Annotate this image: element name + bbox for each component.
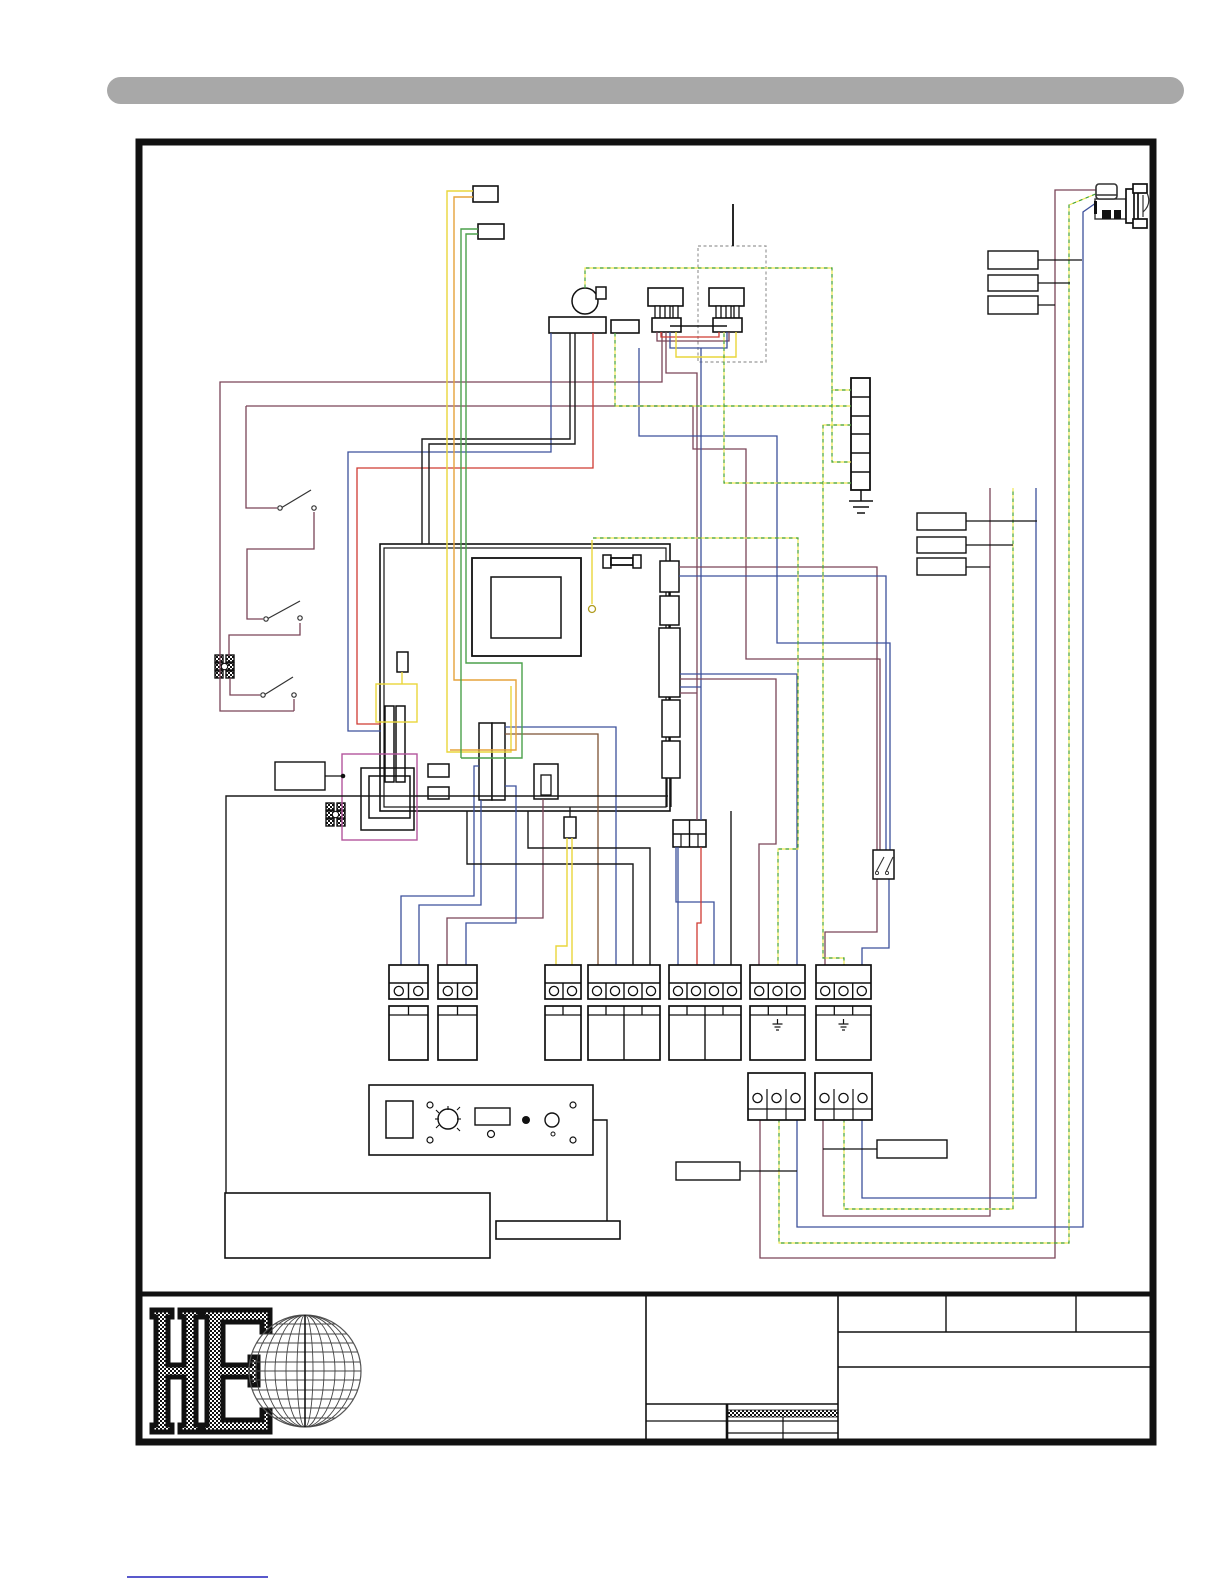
wire blue conn1 to relay switch — [679, 576, 886, 851]
gnd wire ignitor loop — [585, 268, 851, 390]
leader to F2 wire — [740, 1170, 797, 1172]
ignitor circle — [572, 288, 598, 314]
transformer T1 core outer — [361, 768, 414, 830]
vent pipe line — [732, 204, 734, 246]
wire blue header to block A right — [419, 800, 481, 965]
connector J5 tall plug — [659, 628, 680, 697]
switch SW4 — [261, 677, 296, 697]
logo letter H — [152, 1310, 200, 1432]
connector J4 link 1 — [668, 592, 670, 596]
title block divider vertical 1 — [645, 1296, 647, 1440]
leader transformer with dot — [325, 775, 343, 777]
wire blue header to block B — [466, 786, 516, 965]
terminal block TB-F2 — [748, 1073, 805, 1120]
wire blue J8 to block E3 — [676, 847, 714, 965]
wire blue conn3 to J8 — [680, 686, 701, 688]
terminal block TB-G2 — [815, 1073, 872, 1120]
wire yellow PCB test point — [591, 540, 593, 604]
gas valve GV2 leg 1 — [716, 306, 721, 318]
gas valve GV2 coil top — [709, 288, 744, 306]
title block rev table bold divider — [726, 1404, 729, 1440]
relay switch box — [873, 850, 894, 879]
wire blue valve U jumper — [670, 332, 727, 348]
connector 2x2 block J8 — [673, 820, 706, 847]
label box right of G2 — [877, 1140, 947, 1158]
leader mid right 3 — [966, 566, 990, 568]
title block rev line 2 — [727, 1432, 838, 1434]
wire blue block F2 loop to motor — [797, 198, 1103, 1227]
terminal block TB-D — [588, 965, 660, 1060]
leader motor blue — [1038, 259, 1082, 261]
wire green rectB loop — [461, 234, 522, 758]
title block top border — [136, 1292, 1156, 1297]
gas valve GV2 leg 2 — [726, 306, 731, 318]
wire blue conn3 to block F — [680, 674, 797, 965]
wire red burner to PCB left — [357, 333, 593, 724]
relay K1 yellow outline — [376, 684, 417, 722]
title block divider vertical 2 — [837, 1296, 839, 1440]
connector J4 link 2 — [668, 625, 670, 628]
connector J6 small rect a — [428, 764, 449, 777]
terminal block TB-B — [438, 965, 477, 1060]
leader mid right 1 — [966, 520, 1037, 522]
burner bracket wide rect — [549, 317, 606, 333]
leader motor gnd — [1038, 282, 1070, 284]
wire maroon block out to SW4 — [230, 678, 260, 695]
control panel — [369, 1085, 593, 1155]
inducer motor — [1094, 184, 1149, 228]
wire blue block G2 loop up right — [862, 488, 1036, 1198]
gnd wire PCB to block F — [593, 538, 798, 965]
wire maroon SW2 out — [229, 623, 300, 656]
connector J7 link 4 — [668, 737, 670, 741]
wire blue burner to PCB left — [348, 333, 551, 731]
wire red J8 to block E2 — [697, 847, 701, 965]
ground strip divider 1 — [851, 396, 870, 398]
gas valve GV1 coil top — [648, 288, 683, 306]
wire maroon U3 to block B — [447, 799, 543, 965]
ground symbol — [849, 490, 873, 513]
junction connector block 2 — [326, 803, 345, 826]
wire yellow sensor to block C left — [556, 838, 567, 965]
label box mid right 3 — [917, 558, 966, 575]
connector J4 right edge plug 2 — [660, 596, 679, 625]
wire maroon conn1 to relay switch — [679, 567, 877, 851]
sheet border frame — [139, 142, 1153, 1442]
wire blue relay switch to block G — [862, 879, 889, 965]
ignitor boot rect — [596, 287, 606, 299]
valve link wire — [670, 325, 727, 327]
low voltage boundary box — [342, 754, 417, 840]
wire maroon valve U jumper — [657, 332, 729, 341]
title block rev hatched strip — [728, 1410, 838, 1417]
wire black block E4 — [730, 811, 732, 965]
flame sensor rect B — [478, 224, 504, 239]
gas valve GV1 leg 3 — [673, 306, 678, 318]
wire maroon connector J8 stub — [680, 692, 697, 694]
wire maroon switch loop main — [220, 332, 662, 711]
transformer T1 winding bar right — [396, 706, 405, 782]
wire black burner pair a — [422, 333, 570, 544]
title block rev table top — [646, 1403, 838, 1405]
connector J5 link 3 — [668, 697, 670, 700]
wire maroon relay switch to block G — [825, 879, 877, 965]
ground strip divider 4 — [851, 452, 870, 454]
ground wires yellow-green dashed — [585, 193, 1098, 1243]
wire black PCB to block D3 — [467, 811, 633, 965]
footer link underline — [127, 1576, 268, 1578]
wire yellow valve U jumper — [676, 332, 736, 357]
wire yellow rectA loop — [447, 191, 511, 752]
ground terminal strip — [851, 378, 870, 490]
logo globe — [249, 1315, 361, 1427]
terminal block TB-C — [545, 965, 581, 1060]
gas valve GV2 base — [713, 318, 742, 332]
label box motor maroon — [988, 296, 1038, 314]
fuse F1 terminal left — [603, 555, 611, 568]
wire blue J8 to block E1 — [677, 847, 679, 965]
leader mid right 2 — [966, 544, 1013, 546]
leader motor maroon — [1038, 304, 1055, 306]
sensor bracket rect — [611, 320, 639, 333]
notes box large — [225, 1193, 490, 1258]
connector J7 plug 5 — [662, 741, 680, 778]
connector J4 right edge plug 1 — [660, 561, 679, 592]
wire red valve U jumper — [661, 332, 719, 337]
logo letter E — [203, 1310, 270, 1432]
display frame — [472, 558, 581, 656]
terminal block TB-E — [669, 965, 741, 1060]
test point circle — [589, 606, 596, 613]
wire maroon conn3 to block F — [680, 679, 776, 965]
leader to G2 wire — [823, 1148, 877, 1150]
gnd wire strip jumper — [832, 390, 851, 462]
fuse F1 body — [611, 558, 633, 565]
title block h-line right lower — [838, 1366, 1153, 1368]
wire black burner pair b — [429, 333, 575, 544]
ground strip divider 5 — [851, 471, 870, 473]
gnd wire strip to valve GV2 — [724, 332, 851, 483]
control panel line — [593, 1120, 607, 1221]
gnd wire bracket to strip — [615, 333, 851, 406]
label box mid right 2 — [917, 537, 966, 553]
wire yellow relay K1 lead — [401, 672, 403, 684]
connector J7 plug 4 — [662, 700, 680, 737]
ground strip divider 2 — [851, 415, 870, 417]
wire black PCB to block D4 — [528, 811, 650, 965]
wire maroon SW4 return — [293, 699, 295, 711]
wire orange rectA loop — [450, 197, 516, 750]
PCB board outline — [380, 544, 670, 811]
PCB inner outline — [384, 548, 666, 807]
wire black long bottom run — [226, 796, 668, 1193]
wire brown header to block D — [505, 734, 598, 965]
wire blue valve area to relay switch — [639, 348, 890, 851]
title block rev line 1 — [646, 1420, 838, 1422]
wire maroon block G2 loop up right — [823, 488, 990, 1216]
label box motor gnd — [988, 275, 1038, 291]
ground strip divider 3 — [851, 433, 870, 435]
wire maroon SW1 out — [247, 512, 314, 619]
terminal block TB-A — [389, 965, 428, 1060]
wire blue header to block D — [505, 727, 616, 965]
switch SW1 — [278, 490, 316, 510]
wire maroon valve1 to connector J8 — [666, 332, 697, 820]
header J2 right bar — [492, 723, 505, 800]
relay K1 small rect — [397, 652, 408, 672]
header J2 left bar — [479, 723, 492, 800]
gas valve GV1 leg 1 — [655, 306, 660, 318]
label box transformer — [275, 762, 325, 790]
label box motor blue — [988, 251, 1038, 269]
wire green rectB run — [461, 229, 478, 758]
title block rev v-line — [782, 1417, 784, 1440]
title block v-line cell b — [1075, 1296, 1077, 1332]
connector J6 small rect b — [428, 787, 449, 799]
title block h-line right upper — [838, 1331, 1153, 1333]
dashed enclosure box — [698, 246, 766, 362]
label box bottom left of F2 — [676, 1162, 740, 1180]
component U3 inner — [541, 775, 551, 795]
fuse F1 terminal right — [633, 555, 641, 568]
component U3 outer — [534, 764, 558, 799]
terminal block TB-G — [816, 965, 871, 1060]
display window — [491, 577, 561, 638]
flame sensor rect A — [473, 186, 498, 202]
switch SW2 — [264, 601, 302, 621]
terminal block TB-F — [750, 965, 805, 1060]
transformer T1 winding bar left — [385, 706, 394, 782]
notes box small — [496, 1221, 620, 1239]
gnd wire strip to block G — [823, 425, 851, 965]
gas valve GV1 leg 2 — [665, 306, 670, 318]
rollout switch connector block — [215, 655, 234, 678]
wire blue header to block A left — [401, 766, 479, 965]
wire yellow sensor to block C right — [571, 838, 573, 965]
wire maroon block F2 loop to motor — [760, 190, 1097, 1258]
gas valve GV2 leg 3 — [734, 306, 739, 318]
wire black sensor S5 stub — [569, 807, 571, 817]
sensor S5 small rect — [564, 817, 576, 838]
transformer T1 core inner — [369, 776, 410, 818]
label box mid right 1 — [917, 513, 966, 530]
gnd wire block G2 loop — [844, 488, 1013, 1209]
gnd wire block F2 to motor — [779, 193, 1098, 1243]
title block v-line cell a — [945, 1296, 947, 1332]
wire maroon long run to relay box — [246, 406, 880, 851]
wire blue valve jumper to connector J8 — [700, 348, 702, 820]
gas valve GV1 base — [652, 318, 681, 332]
wire black conn5 down pair — [667, 778, 671, 807]
gray header bar — [107, 77, 1184, 104]
wire maroon feed to switch SW1 — [246, 406, 277, 508]
